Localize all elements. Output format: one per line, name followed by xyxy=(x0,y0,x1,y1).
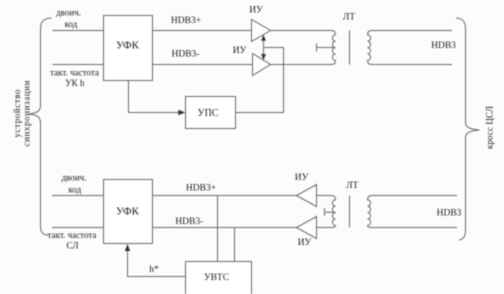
svg-text:УПС: УПС xyxy=(198,108,219,119)
svg-text:синхронизации: синхронизации xyxy=(21,80,31,146)
amplifier ИУ (bottom, - line, points left) xyxy=(297,217,317,239)
wire: HDB3 input from кросс (bottom pair) xyxy=(372,195,458,197)
wire: HDB3- (bottom, ИУ to УФК) xyxy=(153,227,297,229)
transformer ЛТ (top): core xyxy=(349,31,351,65)
wire: HDB3+ (bottom, ИУ to УФК) xyxy=(153,195,297,197)
block УФК (top) xyxy=(104,16,153,81)
svg-text:двоич.: двоич. xyxy=(56,8,81,18)
svg-text:УФК: УФК xyxy=(116,39,140,51)
svg-text:HDB3-: HDB3- xyxy=(172,50,200,60)
svg-text:HDB3-: HDB3- xyxy=(175,217,203,227)
svg-text:HDB3+: HDB3+ xyxy=(186,184,216,194)
transformer ЛТ (bottom): core xyxy=(349,196,351,228)
block УВТС xyxy=(186,262,252,294)
svg-text:двоич.: двоич. xyxy=(62,173,87,183)
svg-text:ИУ: ИУ xyxy=(298,238,312,248)
svg-text:ИУ: ИУ xyxy=(233,46,247,56)
double arrow between top ИУ amplifiers xyxy=(263,38,265,57)
wire: top ИУ output to transformer (HDB3- side) xyxy=(271,64,332,66)
svg-text:СЛ: СЛ xyxy=(67,240,79,250)
svg-text:код: код xyxy=(68,185,81,195)
svg-text:такт. частота: такт. частота xyxy=(48,230,97,240)
svg-text:кросс ЦСЛ: кросс ЦСЛ xyxy=(485,106,495,149)
wire: двоич. код input (bottom) xyxy=(52,195,104,197)
wire: HDB3+ tap down to УВТС xyxy=(217,196,219,262)
transformer ЛТ (top): left winding xyxy=(332,31,336,65)
wire: transformer to bottom ИУ (- side) xyxy=(317,227,332,229)
wire: УПС feedback to double arrow xyxy=(236,48,284,113)
transformer ЛТ (bottom): right winding xyxy=(368,196,372,228)
wire: двоич. код input (top) xyxy=(53,30,104,32)
svg-text:УК h: УК h xyxy=(65,78,85,88)
wire: УФК bottom output to УПС (with arrow) xyxy=(129,81,180,113)
transformer ЛТ (top): centre tap with terminal bar xyxy=(317,44,336,52)
left brace (inputs group) xyxy=(29,18,52,235)
svg-text:HDB3: HDB3 xyxy=(431,41,456,51)
transformer ЛТ (top): right winding xyxy=(368,31,372,65)
wire: transformer to bottom ИУ (+ side) xyxy=(317,195,332,197)
wire: HDB3+ (top, УФК to ИУ) xyxy=(153,30,252,32)
wire: HDB3 output to кросс (top pair) xyxy=(372,30,453,32)
block УФК (bottom) xyxy=(104,180,153,244)
svg-text:код: код xyxy=(65,19,78,29)
svg-text:УВТС: УВТС xyxy=(204,273,229,283)
svg-text:ЛТ: ЛТ xyxy=(343,13,355,23)
amplifier ИУ (top, + line) xyxy=(252,20,271,42)
wire: такт. частота СЛ input (bottom) xyxy=(52,227,104,229)
wire: h* from УВТС to УФК (with arrow) xyxy=(128,250,186,277)
svg-text:ИУ: ИУ xyxy=(295,173,309,183)
svg-text:устройство: устройство xyxy=(12,89,22,138)
wire: HDB3- tap down to УВТС xyxy=(234,228,236,262)
svg-text:HDB3: HDB3 xyxy=(437,209,462,219)
svg-text:такт. частота: такт. частота xyxy=(50,68,99,78)
transformer ЛТ (bottom): centre tap with terminal bar xyxy=(325,208,336,216)
amplifier ИУ (top, - line) xyxy=(253,54,271,76)
wire: такт. частота УК input (top) xyxy=(53,64,104,66)
wire: HDB3- (top, УФК to ИУ) xyxy=(153,64,253,66)
right brace (кросс ЦСЛ) xyxy=(456,18,480,240)
transformer ЛТ (bottom): left winding xyxy=(332,196,336,228)
amplifier ИУ (bottom, + line, points left) xyxy=(297,185,317,207)
svg-text:HDB3+: HDB3+ xyxy=(171,16,201,26)
block УПС xyxy=(186,97,236,129)
svg-text:ИУ: ИУ xyxy=(249,6,263,16)
svg-text:ЛТ: ЛТ xyxy=(346,181,358,191)
svg-text:УФК: УФК xyxy=(116,206,140,218)
svg-text:h*: h* xyxy=(149,265,159,275)
wire: top ИУ output to transformer (HDB3+ side) xyxy=(271,30,332,32)
